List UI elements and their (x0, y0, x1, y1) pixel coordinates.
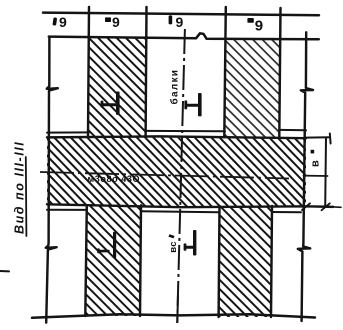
svg-text:балки: балки (169, 69, 181, 105)
svg-text:9: 9 (112, 14, 120, 30)
svg-text:вс: вс (168, 241, 179, 253)
svg-text:9: 9 (255, 18, 263, 35)
svg-text:м3о8о 43О: м3о8о 43О (88, 174, 141, 184)
svg-text:9: 9 (59, 14, 67, 30)
svg-text:9: 9 (176, 14, 184, 30)
svg-text:в: в (310, 160, 322, 167)
svg-text:Вид по ІІІ-ІІІ: Вид по ІІІ-ІІІ (13, 141, 27, 234)
